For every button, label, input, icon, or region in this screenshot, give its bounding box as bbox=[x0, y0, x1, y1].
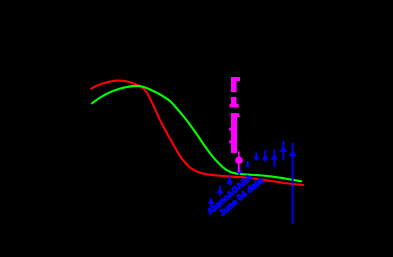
blue data point p6 triangle marker bbox=[253, 154, 259, 159]
blue data point p7 error bar bbox=[264, 151, 266, 162]
blue data point p2 triangle marker bbox=[216, 188, 223, 193]
green theory curve bbox=[91, 86, 302, 181]
magenta highest-energy event point bbox=[235, 157, 243, 165]
blue data point p6 error bar bbox=[255, 152, 257, 160]
red theory curve bbox=[91, 81, 305, 185]
blue data point p10 triangle marker bbox=[289, 150, 297, 156]
blue data point p8 error bar bbox=[273, 150, 275, 168]
blue data point p10 error bar bbox=[292, 143, 294, 224]
blue data point p3 triangle marker bbox=[226, 178, 233, 183]
blue data point p9 error bar bbox=[282, 141, 284, 161]
blue data point p8 triangle marker bbox=[271, 154, 278, 160]
blue data point p2 error bar bbox=[219, 186, 221, 196]
blue data point p7 triangle marker bbox=[262, 154, 269, 159]
blue data point p4 error bar bbox=[238, 167, 240, 175]
blue data point p1 error bar bbox=[210, 198, 212, 208]
blue data point p4 triangle marker bbox=[236, 168, 243, 173]
blue data point p1 triangle marker bbox=[207, 199, 214, 204]
magenta vertical label block 3 (bottom word) bbox=[229, 113, 239, 153]
magenta vertical label block 2 (middle word) bbox=[230, 97, 239, 108]
magenta vertical label block 1 (top word) bbox=[231, 77, 240, 92]
blue data point p5 error bar bbox=[247, 161, 249, 168]
blue data point p3 error bar bbox=[229, 176, 231, 185]
blue data point p9 triangle marker bbox=[280, 146, 288, 152]
magenta point error bar bbox=[238, 152, 240, 173]
blue data point p5 triangle marker bbox=[245, 162, 250, 166]
